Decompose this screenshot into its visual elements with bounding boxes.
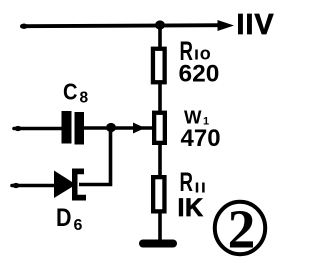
wire: input to C8 [14, 127, 62, 131]
arrowhead on supply rail [218, 20, 235, 31]
svg-text:620: 620 [179, 61, 220, 88]
svg-text:8: 8 [80, 90, 89, 107]
svg-text:IIV: IIV [237, 9, 275, 41]
wire: input to D6 [12, 184, 55, 188]
svg-text:D: D [56, 204, 72, 232]
figure number circle 2 [215, 202, 265, 254]
svg-text:6: 6 [74, 217, 83, 234]
wire: +11V supply rail [22, 25, 222, 26]
wire: C8 input blob [15, 126, 22, 131]
wire: rail to R10 [158, 25, 162, 49]
wire: rail left end blob [20, 24, 27, 29]
resistor R11 [153, 177, 164, 211]
wire: W1 to R11 [158, 144, 162, 176]
svg-text:470: 470 [181, 125, 221, 152]
capacitor C8 plate right [75, 112, 85, 145]
diode D6 anode triangle [54, 171, 76, 199]
wire: wiper [110, 126, 152, 130]
node B: junction of C8, D6 and wiper [106, 123, 116, 132]
svg-text:2: 2 [228, 199, 256, 260]
svg-text:C: C [63, 79, 78, 105]
svg-text:IK: IK [178, 194, 204, 222]
wire: R11 to ground [158, 213, 162, 243]
svg-text:R: R [180, 167, 194, 197]
capacitor C8 plate left [62, 111, 72, 144]
wire: D6 input blob [13, 183, 20, 188]
wire: C8 to junction [84, 126, 108, 130]
wiper arrowhead [133, 123, 145, 134]
resistor R10 [153, 49, 165, 83]
diode D6 cathode bar [72, 169, 86, 201]
potentiometer W1 [154, 113, 165, 143]
wire: R10 to W1 [158, 82, 162, 112]
ground [143, 240, 173, 248]
wire: junction down to D6 [79, 128, 111, 185]
node A: junction of rail and R10 [155, 20, 165, 29]
